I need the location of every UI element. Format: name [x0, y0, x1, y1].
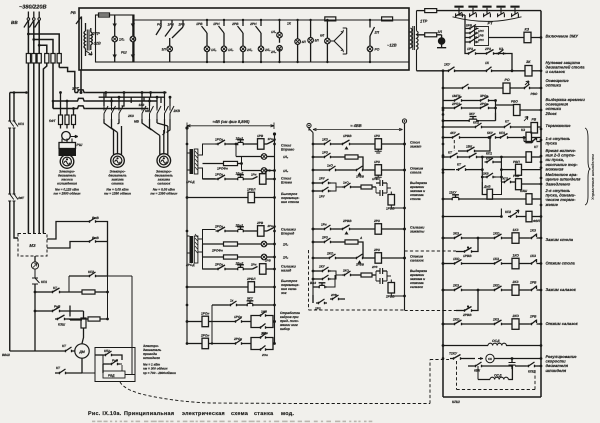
- fuse box1 right: [382, 17, 393, 21]
- svg-text:2КО: 2КО: [326, 252, 334, 256]
- svg-text:1Л₃: 1Л₃: [283, 169, 289, 173]
- svg-text:Отжим салазок: Отжим салазок: [546, 321, 579, 326]
- coil RVP: [500, 160, 541, 175]
- contact 2KO c: [342, 269, 361, 277]
- svg-text:1РЗ: 1РЗ: [322, 151, 328, 155]
- svg-text:2РОк: 2РОк: [479, 102, 488, 106]
- svg-text:КП1: КП1: [503, 177, 509, 181]
- text note Регулирование: [546, 354, 578, 373]
- coil FVP: [519, 211, 541, 223]
- contact 1kO b: [342, 181, 361, 189]
- terminal a2: [307, 123, 311, 127]
- resistor bB3: [345, 236, 363, 258]
- text note Зажим стола: [546, 237, 574, 242]
- faint bottom artifact row: [92, 421, 372, 423]
- svg-text:МЗ: МЗ: [29, 243, 35, 248]
- svg-text:схема: схема: [231, 411, 249, 417]
- svg-text:1КЗ: 1КЗ: [530, 229, 537, 233]
- svg-text:1НВ: 1НВ: [261, 310, 268, 314]
- svg-text:1РОн: 1РОн: [201, 312, 209, 316]
- contacts 2RU 1RU: [312, 177, 342, 199]
- svg-text:1ТР: 1ТР: [420, 19, 428, 24]
- coil 1RVV: [376, 187, 406, 211]
- text note Нулевая защита: [546, 60, 586, 74]
- svg-text:1Рн: 1Рн: [321, 223, 327, 227]
- wire phase2: [34, 20, 53, 53]
- svg-text:ЗК: ЗК: [526, 60, 531, 64]
- svg-text:ДнВ: ДнВ: [483, 185, 491, 189]
- svg-text:КП2: КП2: [486, 157, 492, 161]
- text salazki vpered: [281, 228, 297, 236]
- coil 2RVV: [385, 280, 406, 299]
- wire M3 down: [34, 256, 36, 262]
- inductor OSD2: [478, 366, 512, 380]
- svg-text:1РОФн: 1РОФн: [217, 167, 228, 171]
- coil RVO: [496, 105, 542, 116]
- svg-text:2РВ: 2РВ: [256, 221, 264, 225]
- svg-text:20сек: 20сек: [545, 111, 558, 116]
- svg-text:Принципиальная: Принципиальная: [124, 411, 174, 417]
- contact KP1 m: [32, 269, 47, 351]
- contact 3ROk: [464, 94, 496, 102]
- rung res lower: [70, 319, 95, 321]
- svg-text:1КО: 1КО: [493, 232, 500, 236]
- coil KZt: [510, 128, 541, 143]
- svg-text:1Л₂: 1Л₂: [283, 155, 289, 159]
- svg-text:2РБЛ: 2РБЛ: [246, 277, 256, 281]
- svg-text:2Рн: 2Рн: [250, 263, 257, 267]
- text spindle motor: [143, 344, 176, 375]
- capacitor 2 cap: [376, 183, 391, 196]
- svg-text:1РЗ: 1РЗ: [467, 47, 474, 51]
- svg-text:1РЗ: 1РЗ: [374, 160, 380, 164]
- push button T4: [496, 6, 505, 18]
- svg-text:Отжим стола: Отжим стола: [546, 261, 576, 266]
- text otzhim stola b: [410, 167, 424, 175]
- contact 4FT left: [8, 194, 25, 201]
- svg-text:3КЗ: 3КЗ: [453, 232, 460, 236]
- svg-text:6Л: 6Л: [320, 34, 325, 38]
- svg-text:1МП1: 1МП1: [452, 94, 461, 98]
- svg-text:nр = 700 - 2800об/мин: nр = 700 - 2800об/мин: [143, 371, 176, 375]
- contact KP1b: [460, 152, 492, 159]
- contacts 2RZ 2RV low: [313, 293, 345, 311]
- svg-text:Рис. IX.10а.: Рис. IX.10а.: [88, 411, 122, 417]
- svg-text:2РЗ: 2РЗ: [371, 265, 378, 269]
- svg-text:2РУ: 2РУ: [318, 177, 326, 181]
- text note Отжим салазок: [546, 321, 579, 326]
- svg-text:2Л₄: 2Л₄: [270, 50, 277, 54]
- wire phase1: [28, 20, 59, 53]
- motor M1: [60, 155, 74, 169]
- coil 2RV b: [260, 259, 276, 275]
- text bystroe salazok: [281, 279, 300, 295]
- svg-text:2РН: 2РН: [249, 22, 257, 26]
- wire lattice m2: [99, 91, 164, 108]
- motor DM: [75, 344, 89, 358]
- svg-text:2Л₄: 2Л₄: [282, 243, 289, 247]
- svg-text:электрическая: электрическая: [182, 411, 225, 417]
- svg-text:2РЗ: 2РЗ: [321, 236, 328, 240]
- switch 2P: [369, 19, 380, 36]
- contact 2KO bB: [312, 252, 338, 260]
- terminal L2: [33, 12, 36, 21]
- svg-text:2КВ: 2КВ: [482, 172, 490, 176]
- contact 1kO: [312, 164, 338, 172]
- dash RVD link: [120, 360, 449, 404]
- svg-text:2КО: 2КО: [512, 314, 520, 318]
- svg-text:2РВ: 2РВ: [178, 23, 186, 27]
- block A left rail: [186, 128, 188, 344]
- push button T1: [454, 6, 463, 18]
- svg-text:2КО: 2КО: [342, 269, 349, 273]
- contact 6VK: [468, 362, 512, 373]
- contact 1VK: [458, 136, 491, 152]
- contact KT t: [484, 120, 513, 129]
- fuse F3: [37, 54, 41, 64]
- svg-text:стола: стола: [410, 171, 421, 175]
- contact 2RVV c: [338, 254, 375, 267]
- label 1TR: [420, 19, 428, 24]
- text note Зажим салазок: [546, 287, 577, 292]
- svg-text:набор: набор: [280, 327, 290, 331]
- transformer 2TR primary: [84, 23, 86, 56]
- contact 1ROk c: [212, 315, 251, 323]
- wire m3 merge: [142, 119, 168, 155]
- svg-text:РШ: РШ: [77, 143, 83, 147]
- contact 2ROk b: [203, 263, 228, 271]
- block A right rail: [274, 134, 276, 344]
- brace RT: [453, 17, 522, 26]
- svg-text:2РВ: 2РВ: [529, 281, 537, 285]
- svg-text:РнВ: РнВ: [513, 174, 520, 178]
- selsyn 1RSD: [186, 149, 198, 184]
- contact 1k: [212, 299, 245, 307]
- contact RVO NC arrow: [510, 81, 541, 96]
- svg-text:РВ: РВ: [532, 118, 537, 122]
- lamp branch 2РН: [249, 19, 271, 63]
- svg-text:КП2: КП2: [473, 121, 479, 125]
- ladder bottom rail: [443, 396, 541, 398]
- svg-text:салазок: салазок: [410, 259, 424, 263]
- wire box1 drop: [80, 70, 82, 93]
- svg-text:1РВ: 1РВ: [478, 34, 484, 38]
- bus phase B: [53, 98, 158, 101]
- svg-text:1кО: 1кО: [327, 164, 333, 168]
- svg-text:5РВ: 5РВ: [466, 24, 473, 28]
- rung RnV KZSh: [34, 305, 84, 327]
- wire m2 merge: [104, 119, 122, 155]
- svg-text:2КО: 2КО: [492, 284, 500, 288]
- push button T3: [482, 6, 491, 18]
- svg-text:1РОк: 1РОк: [215, 138, 223, 142]
- contact 1RVV: [456, 237, 479, 258]
- coil KZ: [489, 28, 542, 43]
- wire sec bottom: [417, 70, 447, 72]
- svg-text:1к: 1к: [230, 299, 234, 303]
- coil 1RZ: [374, 134, 406, 153]
- label ~12V left: [92, 42, 101, 46]
- contact KP2 arrow: [443, 209, 519, 218]
- rung zazhim stola: [442, 228, 541, 243]
- contacts 2 m2: [0, 0, 1, 1]
- svg-text:ВВШ: ВВШ: [2, 353, 11, 357]
- contact 1RZ: [466, 47, 478, 55]
- switch BB label: [11, 20, 18, 25]
- junction dots r9: [442, 156, 445, 201]
- fuse sec top: [425, 9, 437, 13]
- svg-text:салазок: салазок: [157, 182, 170, 186]
- contact stack 5RV 1RN 1RV 2RN: [457, 15, 489, 46]
- text otzhim salazok b: [410, 255, 424, 263]
- contacts 2NV 2On: [251, 332, 276, 358]
- junction dots phases: [27, 33, 41, 47]
- svg-text:2РОк: 2РОк: [233, 337, 242, 341]
- svg-text:~380/220В: ~380/220В: [19, 4, 47, 11]
- wire 2RSD taps: [198, 230, 216, 270]
- svg-text:2Он: 2Он: [261, 353, 268, 357]
- junction dots r6: [442, 126, 445, 139]
- block B left rail: [309, 128, 313, 303]
- label KLSh: [452, 400, 460, 404]
- svg-text:пуска: пуска: [546, 141, 558, 146]
- resistor bB2: [361, 185, 376, 189]
- contact 2RZ b: [312, 236, 345, 244]
- resistor vert arm: [81, 318, 86, 344]
- rung otzhim stola: [442, 254, 541, 269]
- svg-text:Включение ЗМУ: Включение ЗМУ: [546, 34, 579, 39]
- box1 top wire: [134, 19, 409, 21]
- svg-text:и салазок: и салазок: [546, 69, 566, 74]
- svg-text:ВнВ: ВнВ: [92, 216, 99, 220]
- contact 1RZ b: [313, 151, 345, 159]
- contact 1Rn a: [267, 137, 276, 144]
- lamp 2L2: [203, 241, 289, 247]
- lamp 2L3: [203, 244, 289, 260]
- svg-text:1КО: 1КО: [453, 257, 460, 261]
- bus phase C: [52, 100, 149, 109]
- contact 1RVV c: [338, 166, 375, 179]
- label VVSh: [2, 353, 11, 357]
- text vyderzhka salazok: [410, 269, 427, 289]
- svg-text:≈ 4ВВ: ≈ 4ВВ: [350, 123, 361, 128]
- wire motor1 drops: [61, 93, 74, 116]
- lamp 5L: [308, 19, 320, 62]
- svg-text:Зажим стола: Зажим стола: [546, 237, 574, 242]
- ladder top wire: [437, 10, 541, 12]
- text note Время включе-: [546, 148, 579, 171]
- junction dot rail: [442, 69, 514, 72]
- text note 1-я ступень: [546, 136, 571, 146]
- svg-text:2РОн: 2РОн: [200, 334, 209, 338]
- lamp branch 1РН: [213, 19, 234, 63]
- capacitor 4 cap: [376, 271, 391, 284]
- svg-text:11КУ: 11КУ: [449, 191, 457, 195]
- svg-text:2РЗ: 2РЗ: [484, 47, 492, 51]
- svg-text:1РВВ: 1РВВ: [463, 254, 472, 258]
- coil RV: [513, 117, 541, 134]
- brace upravlenie: [585, 128, 590, 205]
- wire to M3 group: [28, 63, 46, 234]
- svg-text:2РВВ: 2РВВ: [342, 219, 352, 223]
- svg-text:1КУ: 1КУ: [444, 63, 451, 67]
- lamp branch 2L1: [121, 15, 136, 62]
- lamp 6L selector: [320, 19, 347, 63]
- terminal a1: [185, 126, 188, 129]
- coil 2RV a: [256, 221, 267, 236]
- svg-text:2РВ: 2РВ: [330, 293, 338, 297]
- svg-text:1КЗ: 1КЗ: [513, 228, 520, 232]
- svg-text:ДМ: ДМ: [78, 350, 86, 354]
- junction bus dots: [59, 91, 82, 110]
- contact 2KV sub: [481, 172, 503, 179]
- fuse F4: [45, 54, 49, 64]
- text note Торможение: [546, 123, 572, 128]
- contact T2KU: [449, 352, 483, 360]
- meter circle: [31, 262, 38, 269]
- button 1Vn1: [236, 137, 258, 146]
- svg-text:2Л₅: 2Л₅: [282, 256, 289, 260]
- svg-text:2КЗ: 2КЗ: [512, 280, 520, 284]
- text motor3: [150, 170, 177, 196]
- svg-text:2РВ: 2РВ: [231, 22, 239, 26]
- svg-text:можения: можения: [546, 166, 565, 171]
- svg-text:ние стола: ние стола: [281, 200, 299, 204]
- svg-text:≈4В (см фиг 8,89б): ≈4В (см фиг 8,89б): [213, 119, 251, 124]
- fuse F5: [51, 54, 55, 64]
- svg-text:9КУ: 9КУ: [247, 297, 254, 301]
- svg-text:КЗШ: КЗШ: [58, 323, 66, 327]
- svg-text:РВ: РВ: [71, 11, 77, 15]
- svg-text:КП2: КП2: [104, 349, 110, 353]
- text stol vpravo: [281, 144, 295, 152]
- svg-text:3Л: 3Л: [438, 30, 443, 34]
- svg-text:2РВ: 2РВ: [529, 315, 537, 319]
- capacitor 3 cap: [371, 265, 387, 274]
- svg-text:РнВ: РнВ: [54, 305, 61, 309]
- motor M3: [157, 154, 171, 168]
- svg-text:2РЗ: 2РЗ: [373, 219, 380, 223]
- svg-text:2РН: 2РН: [477, 38, 485, 42]
- terminal b2: [402, 119, 406, 123]
- contact 2ROk: [464, 99, 497, 121]
- svg-text:5КУ: 5КУ: [487, 131, 494, 135]
- svg-text:2КО: 2КО: [452, 318, 460, 322]
- svg-text:Т2КУ: Т2КУ: [449, 352, 458, 356]
- ladder right rail: [540, 11, 542, 397]
- wire M3 out2: [47, 242, 87, 249]
- rung otzhim salazok: [442, 314, 541, 329]
- inductor OSD1: [442, 339, 541, 347]
- svg-text:4КУ: 4КУ: [449, 131, 457, 135]
- svg-text:РнВ: РнВ: [112, 359, 119, 363]
- transformer 1TR secondary: [417, 11, 419, 71]
- contact 2ROk c: [212, 337, 251, 345]
- plug RSh: [59, 125, 83, 156]
- contact 2Rn b: [250, 263, 258, 270]
- svg-text:ОСД: ОСД: [494, 374, 502, 378]
- svg-text:5ФТ: 5ФТ: [49, 119, 56, 123]
- contact RnV rvd: [103, 355, 122, 365]
- svg-text:шпинделя: шпинделя: [546, 368, 567, 373]
- svg-text:1РВВ: 1РВВ: [343, 134, 352, 138]
- transformer 1TR core: [413, 26, 415, 50]
- selsyn 2RSD: [185, 234, 198, 267]
- transformer 1TR primary: [409, 28, 412, 48]
- svg-text:Управление шпинделем: Управление шпинделем: [591, 154, 595, 200]
- coil 2RZ: [373, 219, 406, 234]
- resistor KZSh rung: [70, 276, 109, 321]
- text note Освещение: [546, 78, 570, 88]
- svg-text:РО: РО: [157, 23, 162, 27]
- rung zazhim salazok: [442, 280, 541, 295]
- contact KPSh: [515, 362, 541, 374]
- svg-text:МВ: МВ: [134, 120, 140, 124]
- contact 2ROk a: [214, 225, 236, 233]
- text note Включение ЗМУ: [546, 34, 579, 39]
- svg-text:1Вн2: 1Вн2: [236, 172, 244, 176]
- contacts 2KU: [312, 265, 342, 281]
- lamp 3L: [162, 38, 173, 62]
- push button T2: [468, 6, 477, 18]
- label 3RT: [72, 87, 79, 91]
- lamp panel frame: [96, 15, 135, 62]
- svg-text:1Л₂: 1Л₂: [211, 48, 217, 52]
- contact KP1c: [501, 177, 513, 184]
- lamp branch 1L1: [112, 15, 125, 62]
- text upravlenie shpindelem: [591, 154, 595, 200]
- rung KT res: [34, 286, 109, 294]
- coil ZK: [525, 60, 541, 76]
- coil 2RZ c: [373, 248, 406, 263]
- svg-text:жение: жение: [545, 202, 559, 207]
- contact 2RZ: [484, 47, 496, 55]
- contact VnV 2: [87, 236, 108, 243]
- switch RV on border: [71, 11, 82, 70]
- contact KZ: [478, 47, 512, 71]
- svg-text:ВВ: ВВ: [11, 20, 18, 25]
- label RVO: [511, 100, 518, 104]
- lamp 3L pilot: [437, 30, 446, 48]
- svg-text:2Вн2: 2Вн2: [235, 262, 244, 266]
- push button T5: [510, 6, 519, 18]
- wire left pair: [10, 91, 18, 351]
- svg-text:КЗ: КЗ: [525, 28, 530, 32]
- svg-text:Зажим салазок: Зажим салазок: [546, 287, 577, 292]
- fuses 5FT: [49, 115, 76, 125]
- svg-text:1Л₄: 1Л₄: [271, 30, 277, 34]
- svg-text:зажаты: зажаты: [410, 230, 424, 234]
- dash link 2RVV: [405, 296, 457, 311]
- rung KP2 aux: [69, 270, 132, 292]
- contact 1K: [484, 61, 525, 72]
- button 9KU: [212, 297, 276, 322]
- fuse sec lamp: [417, 33, 442, 37]
- svg-text:4Л: 4Л: [301, 40, 307, 44]
- button 1Vn2: [228, 172, 253, 181]
- box RVD: [95, 348, 135, 382]
- svg-text:Вправо: Вправо: [281, 148, 295, 152]
- motor M2: [111, 154, 125, 168]
- svg-text:2Л₂: 2Л₂: [246, 48, 253, 52]
- contact KP2: [443, 121, 484, 129]
- dash link 4KU: [453, 140, 455, 151]
- box1 bottom wire: [96, 61, 410, 63]
- svg-text:стола: стола: [410, 197, 421, 201]
- text salazki nazad: [281, 265, 297, 273]
- svg-text:1РВ: 1РВ: [257, 134, 264, 138]
- svg-text:2Рн: 2Рн: [267, 224, 274, 228]
